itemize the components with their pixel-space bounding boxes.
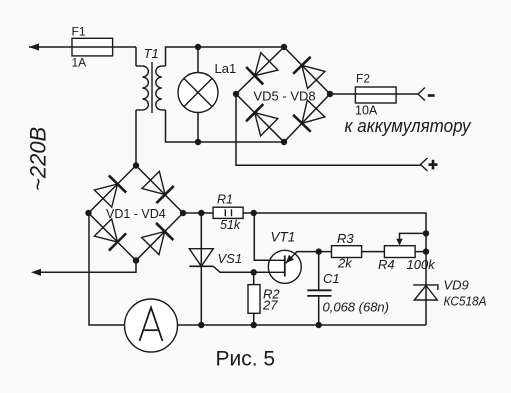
wire mains top y=47 — [29, 46, 136, 48]
wire R3 R4 row — [319, 251, 426, 253]
node bridge2 top — [281, 44, 287, 50]
thyristor VS1 — [189, 249, 213, 267]
wire UJT base1 — [254, 271, 285, 273]
wire bottom rail — [178, 324, 427, 326]
wire lamp branch — [197, 47, 199, 142]
node VS1 cathode rail — [198, 322, 204, 328]
node R2 bottom — [251, 322, 257, 328]
diode VD3 bottom-left edge — [94, 219, 126, 251]
potentiometer R4 — [378, 239, 436, 272]
svg-text:1A: 1A — [72, 56, 87, 70]
capacitor C1 — [307, 290, 331, 296]
node bridge1 right — [180, 210, 186, 216]
svg-text:VS1: VS1 — [218, 251, 243, 266]
wire primary top lead — [135, 47, 137, 66]
svg-text:F2: F2 — [356, 71, 370, 85]
svg-text:VD5 - VD8: VD5 - VD8 — [254, 88, 316, 103]
ammeter PA1 — [125, 299, 178, 352]
wire UJT emitter — [286, 252, 319, 264]
svg-text:к аккумулятору: к аккумулятору — [345, 115, 473, 136]
wire primary bottom lead — [135, 110, 137, 166]
transistor VT1 — [268, 230, 301, 284]
wire secondary top lead — [166, 47, 285, 66]
wire minus output — [330, 93, 418, 95]
wire VD5-8 bridge edges — [236, 47, 330, 142]
diode VD7 bottom-left edge — [246, 104, 278, 136]
svg-text:R1: R1 — [217, 192, 233, 206]
arrow terminal mains L — [29, 43, 39, 50]
node R1 out — [251, 210, 257, 216]
node VS1 anode — [198, 210, 204, 216]
svg-text:La1: La1 — [215, 61, 237, 76]
svg-text:VT1: VT1 — [271, 230, 296, 245]
node C1 bottom — [316, 322, 322, 328]
svg-text:0,068 (68n): 0,068 (68n) — [323, 299, 390, 314]
wire VS1 column — [200, 213, 202, 325]
wire C1 top lead — [318, 252, 320, 291]
node bridge1 top — [133, 162, 139, 168]
node bridge2 right — [327, 91, 333, 97]
svg-text:100k: 100k — [407, 257, 437, 272]
node R4 right — [423, 248, 429, 254]
svg-text:Рис. 5: Рис. 5 — [216, 348, 276, 371]
wire plus output — [236, 94, 421, 165]
wire secondary bottom lead — [166, 110, 285, 142]
wire R2 column — [253, 272, 255, 325]
svg-text:~220В: ~220В — [26, 127, 51, 191]
zener VD9 — [413, 285, 438, 300]
diode VD8 bottom-right edge — [293, 100, 325, 132]
diode VD5 top-left edge — [246, 53, 278, 85]
wire VS1 gate — [213, 266, 253, 272]
fuse F1 — [72, 25, 113, 70]
node wiper — [423, 230, 429, 236]
wire left node to ammeter — [89, 213, 125, 325]
terminal plus — [421, 158, 428, 171]
node lamp top — [195, 44, 201, 50]
wire top dc rail — [183, 213, 426, 325]
resistor R2 — [248, 285, 280, 314]
svg-text:VD1 - VD4: VD1 - VD4 — [106, 207, 166, 221]
wire R4 wiper — [400, 233, 427, 240]
wire C1 bottom lead — [318, 296, 320, 325]
node bridge2 bottom — [281, 139, 287, 145]
node lamp bottom — [195, 139, 201, 145]
resistor R1 — [213, 192, 243, 232]
lamp La1 — [178, 61, 236, 113]
arrow terminal mains N — [31, 269, 41, 276]
node gate base1 — [251, 269, 257, 275]
svg-text:Т1: Т1 — [144, 46, 159, 61]
diode VD6 top-right edge — [293, 57, 325, 89]
svg-text:2k: 2k — [337, 255, 353, 270]
fuse F2 — [355, 71, 396, 117]
wire mains bottom — [41, 261, 136, 273]
svg-text:VD9: VD9 — [444, 277, 469, 292]
svg-text:R4: R4 — [378, 257, 395, 272]
diode VD1 top-left edge — [94, 175, 126, 207]
svg-text:C1: C1 — [323, 271, 340, 286]
svg-text:F1: F1 — [72, 25, 86, 39]
svg-text:R3: R3 — [337, 231, 354, 246]
svg-text:27: 27 — [262, 298, 278, 313]
wire UJT base2 — [254, 213, 285, 260]
node bridge1 left — [85, 210, 91, 216]
node bridge1 bottom — [133, 257, 139, 263]
diode VD4 bottom-right edge — [142, 223, 174, 255]
diode VD2 top-right edge — [142, 171, 174, 203]
resistor R3 — [332, 231, 362, 271]
node emitter C1 — [316, 248, 322, 254]
node bridge2 left — [233, 91, 239, 97]
svg-text:51k: 51k — [220, 218, 241, 232]
terminal minus — [418, 88, 425, 101]
wire VD1-4 bridge edges — [89, 166, 184, 261]
transformer T1 — [136, 62, 166, 113]
svg-text:КС518А: КС518А — [444, 293, 487, 308]
